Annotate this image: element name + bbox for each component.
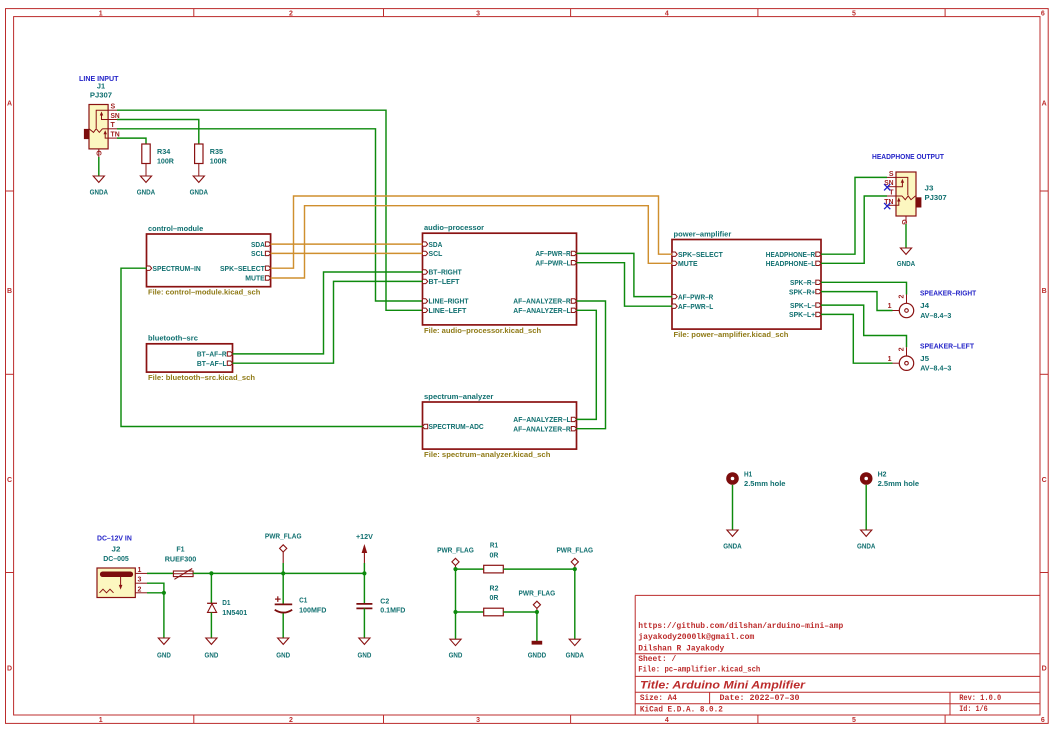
svg-text:D: D xyxy=(1042,666,1047,673)
wire SPK-SELECT xyxy=(271,196,672,268)
resistor R2 xyxy=(484,583,504,615)
wire xyxy=(363,573,365,604)
svg-text:PJ307: PJ307 xyxy=(925,193,947,202)
sheet pin AF-ANALYZER-L xyxy=(571,308,576,312)
ground GNDA xyxy=(723,530,742,551)
svg-text:T: T xyxy=(111,122,116,129)
wire xyxy=(577,310,597,419)
svg-text:2: 2 xyxy=(898,295,905,299)
power flag PWR_FLAG xyxy=(519,589,556,613)
wire xyxy=(117,138,146,144)
sheet pin AF-PWR-L xyxy=(672,304,677,308)
svg-text:AF–PWR–L: AF–PWR–L xyxy=(678,302,714,311)
svg-text:2: 2 xyxy=(289,717,293,724)
sheet pin SPECTRUM-IN xyxy=(147,266,152,270)
wire xyxy=(147,572,173,574)
svg-text:SPK–L+: SPK–L+ xyxy=(789,310,816,319)
svg-text:4: 4 xyxy=(665,717,669,724)
wire xyxy=(456,611,484,613)
wire xyxy=(536,612,538,641)
svg-text:MUTE: MUTE xyxy=(678,259,698,268)
svg-text:GNDA: GNDA xyxy=(857,542,876,551)
svg-text:+12V: +12V xyxy=(356,532,374,541)
sheet bluetooth-src xyxy=(147,334,256,382)
svg-text:5: 5 xyxy=(852,10,856,17)
svg-text:BT–AF–L: BT–AF–L xyxy=(197,359,227,368)
sheet pin LINE-LEFT xyxy=(423,308,428,312)
resistor R1 xyxy=(484,541,504,573)
sheet pin SPECTRUM-ADC xyxy=(423,424,428,428)
wire xyxy=(117,129,423,301)
svg-text:0.1MFD: 0.1MFD xyxy=(380,605,406,614)
sheet pin AF-ANALYZER-R xyxy=(571,299,576,303)
wire xyxy=(821,177,887,254)
svg-text:power–amplifier: power–amplifier xyxy=(674,229,732,238)
sheet pin AF-PWR-L xyxy=(571,261,576,265)
svg-text:GNDA: GNDA xyxy=(90,187,109,196)
svg-text:Sheet: /: Sheet: / xyxy=(638,654,676,664)
svg-text:GNDD: GNDD xyxy=(528,650,547,659)
wire xyxy=(210,612,212,638)
svg-text:4: 4 xyxy=(665,10,669,17)
svg-text:R2: R2 xyxy=(490,583,499,592)
svg-text:control–module: control–module xyxy=(148,224,203,233)
sheet pin BT-RIGHT xyxy=(423,270,428,274)
svg-text:6: 6 xyxy=(1041,717,1045,724)
power flag PWR_FLAG xyxy=(265,532,302,563)
power flag PWR_FLAG xyxy=(556,546,593,570)
sheet pin SCL xyxy=(265,251,270,255)
wire xyxy=(210,573,212,603)
wire xyxy=(455,612,457,639)
svg-text:PWR_FLAG: PWR_FLAG xyxy=(519,589,556,598)
svg-text:2: 2 xyxy=(289,10,293,17)
wire xyxy=(821,196,887,263)
connector J2 xyxy=(97,545,147,598)
svg-text:GND: GND xyxy=(157,650,171,659)
connector J5 xyxy=(888,347,952,372)
svg-text:GNDA: GNDA xyxy=(137,187,156,196)
wire xyxy=(193,572,364,574)
svg-text:F1: F1 xyxy=(176,545,185,554)
svg-text:100R: 100R xyxy=(210,156,227,165)
svg-text:File: pc–amplifier.kicad_sch: File: pc–amplifier.kicad_sch xyxy=(638,665,760,675)
ground GND xyxy=(276,638,290,659)
sheet pin SPK-SELECT xyxy=(672,252,677,256)
svg-text:https://github.com/dilshan/ard: https://github.com/dilshan/arduino–mini–… xyxy=(638,621,843,631)
wire xyxy=(577,263,673,307)
wire xyxy=(456,568,484,570)
sheet pin LINE-RIGHT xyxy=(423,299,428,303)
svg-text:J5: J5 xyxy=(920,354,930,363)
wire xyxy=(577,253,673,296)
connector J4 xyxy=(888,295,952,321)
svg-text:bluetooth–src: bluetooth–src xyxy=(148,334,198,343)
svg-text:6: 6 xyxy=(1041,10,1045,17)
power flag PWR_FLAG xyxy=(437,546,474,570)
junction xyxy=(362,571,366,575)
svg-text:SDA: SDA xyxy=(251,240,265,249)
fuse F1 xyxy=(165,545,197,580)
wire xyxy=(821,292,893,311)
svg-text:Size: A4: Size: A4 xyxy=(640,693,677,703)
svg-text:SPK–SELECT: SPK–SELECT xyxy=(678,250,723,259)
svg-text:H1: H1 xyxy=(744,470,753,479)
svg-text:GND: GND xyxy=(449,650,463,659)
svg-text:SPK–R+: SPK–R+ xyxy=(789,287,816,296)
sheet pin AF-PWR-R xyxy=(571,251,576,255)
wire xyxy=(821,305,907,347)
svg-text:C: C xyxy=(1042,477,1047,484)
svg-text:SPK–R–: SPK–R– xyxy=(790,278,815,287)
svg-text:PWR_FLAG: PWR_FLAG xyxy=(556,546,593,555)
svg-text:audio–processor: audio–processor xyxy=(424,223,484,232)
svg-text:PJ307: PJ307 xyxy=(90,90,112,99)
junction xyxy=(573,567,577,571)
svg-text:AF–PWR–R: AF–PWR–R xyxy=(678,292,714,301)
wire xyxy=(455,569,457,612)
svg-text:Date: 2022–07–30: Date: 2022–07–30 xyxy=(720,693,800,703)
ground GND xyxy=(205,638,219,659)
svg-text:S: S xyxy=(889,171,894,178)
sheet pin BT-AF-R xyxy=(227,352,232,356)
svg-text:AF–PWR–R: AF–PWR–R xyxy=(535,249,571,258)
ground GNDA xyxy=(566,639,585,659)
svg-text:R35: R35 xyxy=(210,147,224,156)
svg-text:0R: 0R xyxy=(490,593,499,602)
wire xyxy=(732,485,734,530)
sheet pin HEADPHONE-R xyxy=(816,252,821,256)
ground GNDA xyxy=(857,530,876,551)
junction xyxy=(209,571,213,575)
svg-text:J2: J2 xyxy=(112,545,121,554)
wire xyxy=(117,120,199,145)
sheet control-module xyxy=(147,224,271,297)
svg-text:AF–PWR–L: AF–PWR–L xyxy=(535,258,571,267)
wire SDA bus xyxy=(271,243,423,245)
wire MUTE xyxy=(271,206,672,278)
svg-text:SPK–L–: SPK–L– xyxy=(790,301,815,310)
sheet pin SPK-SELECT xyxy=(265,266,270,270)
svg-text:GND: GND xyxy=(358,650,372,659)
sheet audio-processor xyxy=(423,223,577,335)
svg-text:J3: J3 xyxy=(925,184,934,193)
svg-text:BT–RIGHT: BT–RIGHT xyxy=(429,268,463,277)
svg-text:File: bluetooth–src.kicad_sch: File: bluetooth–src.kicad_sch xyxy=(148,373,255,382)
svg-text:HEADPHONE–R: HEADPHONE–R xyxy=(766,250,816,259)
svg-text:SCL: SCL xyxy=(429,249,443,258)
svg-text:2: 2 xyxy=(138,586,142,593)
svg-text:D1: D1 xyxy=(222,598,231,607)
junction xyxy=(281,571,285,575)
svg-text:H2: H2 xyxy=(878,470,887,479)
sheet power-amplifier xyxy=(672,229,821,339)
sheet pin BT-AF-L xyxy=(227,361,232,365)
svg-text:AF–ANALYZER–R: AF–ANALYZER–R xyxy=(513,424,571,433)
svg-text:0R: 0R xyxy=(490,550,499,559)
svg-text:Title: Arduino Mini Amplifier: Title: Arduino Mini Amplifier xyxy=(640,679,806,691)
svg-text:AF–ANALYZER–L: AF–ANALYZER–L xyxy=(513,306,571,315)
svg-text:SCL: SCL xyxy=(251,249,265,258)
svg-text:5: 5 xyxy=(852,717,856,724)
wire xyxy=(577,301,606,429)
svg-text:SPEAKER–LEFT: SPEAKER–LEFT xyxy=(920,341,974,350)
no-connect X xyxy=(884,184,890,190)
svg-text:SPEAKER–RIGHT: SPEAKER–RIGHT xyxy=(920,288,977,297)
wire xyxy=(865,485,867,530)
svg-text:GNDA: GNDA xyxy=(566,650,585,659)
wire xyxy=(503,611,537,613)
sheet pin AF-PWR-R xyxy=(672,294,677,298)
svg-text:GNDA: GNDA xyxy=(190,187,209,196)
power +12V xyxy=(356,532,374,563)
svg-text:File: audio–processor.kicad_sc: File: audio–processor.kicad_sch xyxy=(424,326,541,335)
sheet pin SDA xyxy=(423,242,428,246)
svg-text:C1: C1 xyxy=(299,596,308,605)
wire xyxy=(282,613,284,638)
svg-text:C: C xyxy=(7,477,12,484)
capacitor C1 xyxy=(275,596,327,615)
svg-text:SPK–SELECT: SPK–SELECT xyxy=(220,264,265,273)
ground GNDA xyxy=(137,176,156,196)
svg-text:C2: C2 xyxy=(380,597,389,606)
svg-text:3: 3 xyxy=(138,577,142,584)
ground GNDD xyxy=(528,641,547,659)
svg-text:Dilshan R Jayakody: Dilshan R Jayakody xyxy=(638,644,725,654)
svg-text:BT–LEFT: BT–LEFT xyxy=(429,277,460,286)
svg-text:LINE–LEFT: LINE–LEFT xyxy=(429,306,467,315)
svg-text:D: D xyxy=(7,666,12,673)
svg-text:DC–005: DC–005 xyxy=(103,554,129,563)
svg-text:HEADPHONE–L: HEADPHONE–L xyxy=(766,259,816,268)
svg-text:DC–12V IN: DC–12V IN xyxy=(97,534,132,543)
resistor R35 xyxy=(195,144,228,176)
wire SCL bus xyxy=(271,252,423,254)
svg-text:SDA: SDA xyxy=(429,240,443,249)
svg-text:2.5mm hole: 2.5mm hole xyxy=(744,479,786,488)
svg-text:Rev: 1.0.0: Rev: 1.0.0 xyxy=(959,693,1001,703)
svg-text:MUTE: MUTE xyxy=(245,274,265,283)
svg-text:AF–ANALYZER–R: AF–ANALYZER–R xyxy=(513,297,571,306)
sheet pin SDA xyxy=(265,242,270,246)
sheet pin SPK-L- xyxy=(816,303,821,307)
svg-text:1: 1 xyxy=(99,10,103,17)
svg-text:100MFD: 100MFD xyxy=(299,606,327,615)
wire xyxy=(121,268,423,426)
wire xyxy=(147,583,164,593)
diode D1 xyxy=(207,598,248,617)
ground GNDA xyxy=(190,176,209,196)
svg-text:jayakody2000lk@gmail.com: jayakody2000lk@gmail.com xyxy=(638,632,754,642)
svg-text:3: 3 xyxy=(476,717,480,724)
ground GND xyxy=(358,638,372,659)
ground GNDA xyxy=(897,248,916,268)
svg-text:B: B xyxy=(7,288,12,295)
sheet pin HEADPHONE-L xyxy=(816,261,821,265)
svg-text:GNDA: GNDA xyxy=(897,259,916,268)
sheet spectrum-analyzer xyxy=(423,392,577,459)
svg-text:AF–ANALYZER–L: AF–ANALYZER–L xyxy=(513,415,571,424)
svg-text:SPECTRUM–IN: SPECTRUM–IN xyxy=(153,264,201,273)
wire xyxy=(574,569,576,639)
junction xyxy=(535,610,539,614)
svg-text:PWR_FLAG: PWR_FLAG xyxy=(265,532,302,541)
svg-text:Id: 1/6: Id: 1/6 xyxy=(959,704,988,714)
wire xyxy=(233,281,423,363)
svg-text:AV–8.4–3: AV–8.4–3 xyxy=(920,364,951,373)
wire xyxy=(363,563,365,573)
svg-text:File: power–amplifier.kicad_sc: File: power–amplifier.kicad_sch xyxy=(674,330,789,339)
svg-text:R1: R1 xyxy=(490,541,499,550)
svg-text:RUEF300: RUEF300 xyxy=(165,554,197,563)
svg-text:A: A xyxy=(1042,101,1047,108)
sheet pin AF-ANALYZER-L xyxy=(571,417,576,421)
sheet pin SPK-R- xyxy=(816,280,821,284)
svg-text:PWR_FLAG: PWR_FLAG xyxy=(437,546,474,555)
sheet pin MUTE xyxy=(672,261,677,265)
svg-text:1: 1 xyxy=(99,717,103,724)
sheet pin SPK-L+ xyxy=(816,312,821,316)
svg-text:R34: R34 xyxy=(157,147,171,156)
svg-text:J1: J1 xyxy=(97,81,106,90)
svg-text:3: 3 xyxy=(476,10,480,17)
svg-text:1: 1 xyxy=(888,356,892,363)
wire xyxy=(98,157,100,176)
resistor R34 xyxy=(142,144,175,176)
svg-text:1: 1 xyxy=(138,567,142,574)
sheet pin AF-ANALYZER-R xyxy=(571,427,576,431)
svg-text:GND: GND xyxy=(205,650,219,659)
svg-text:GNDA: GNDA xyxy=(723,542,742,551)
wire xyxy=(905,224,907,248)
svg-text:SPECTRUM–ADC: SPECTRUM–ADC xyxy=(429,422,485,431)
sheet pin MUTE xyxy=(265,276,270,280)
svg-text:spectrum–analyzer: spectrum–analyzer xyxy=(424,392,493,401)
junction xyxy=(453,610,457,614)
svg-text:KiCad E.D.A. 8.0.2: KiCad E.D.A. 8.0.2 xyxy=(640,704,723,714)
junction xyxy=(162,591,166,595)
svg-text:G: G xyxy=(95,151,102,157)
sheet pin SCL xyxy=(423,251,428,255)
wire xyxy=(282,573,284,604)
connector J1 xyxy=(84,81,119,157)
svg-text:File: control–module.kicad_sch: File: control–module.kicad_sch xyxy=(148,288,261,297)
svg-text:2.5mm hole: 2.5mm hole xyxy=(878,479,920,488)
wire xyxy=(503,568,575,570)
ground GNDA xyxy=(90,176,109,196)
svg-text:BT–AF–R: BT–AF–R xyxy=(197,350,227,359)
wire xyxy=(282,563,284,573)
svg-text:100R: 100R xyxy=(157,156,174,165)
junction xyxy=(453,567,457,571)
wire xyxy=(821,314,893,363)
sheet pin BT-LEFT xyxy=(423,279,428,283)
hole H2 xyxy=(860,470,919,489)
hole H1 xyxy=(726,470,785,489)
wire xyxy=(821,282,907,294)
svg-text:LINE–RIGHT: LINE–RIGHT xyxy=(429,297,469,306)
svg-text:1: 1 xyxy=(888,303,892,310)
wire xyxy=(147,593,164,638)
ground GND xyxy=(449,639,463,659)
no-connect X xyxy=(884,203,890,209)
title block xyxy=(635,595,1040,715)
svg-text:GND: GND xyxy=(276,650,290,659)
svg-text:HEADPHONE OUTPUT: HEADPHONE OUTPUT xyxy=(872,152,944,161)
svg-text:1N5401: 1N5401 xyxy=(222,608,248,617)
svg-text:AV–8.4–3: AV–8.4–3 xyxy=(920,311,951,320)
svg-text:B: B xyxy=(1042,288,1047,295)
svg-text:S: S xyxy=(111,104,116,111)
svg-text:J4: J4 xyxy=(920,301,930,310)
ground GND xyxy=(157,638,171,659)
svg-text:2: 2 xyxy=(898,347,905,351)
wire xyxy=(233,272,423,354)
svg-text:File: spectrum–analyzer.kicad_: File: spectrum–analyzer.kicad_sch xyxy=(424,450,551,459)
capacitor C2 xyxy=(356,597,405,615)
sheet pin SPK-R+ xyxy=(816,289,821,293)
svg-text:A: A xyxy=(7,101,12,108)
wire xyxy=(363,608,365,638)
connector J3 xyxy=(884,171,946,226)
wire xyxy=(117,110,423,310)
